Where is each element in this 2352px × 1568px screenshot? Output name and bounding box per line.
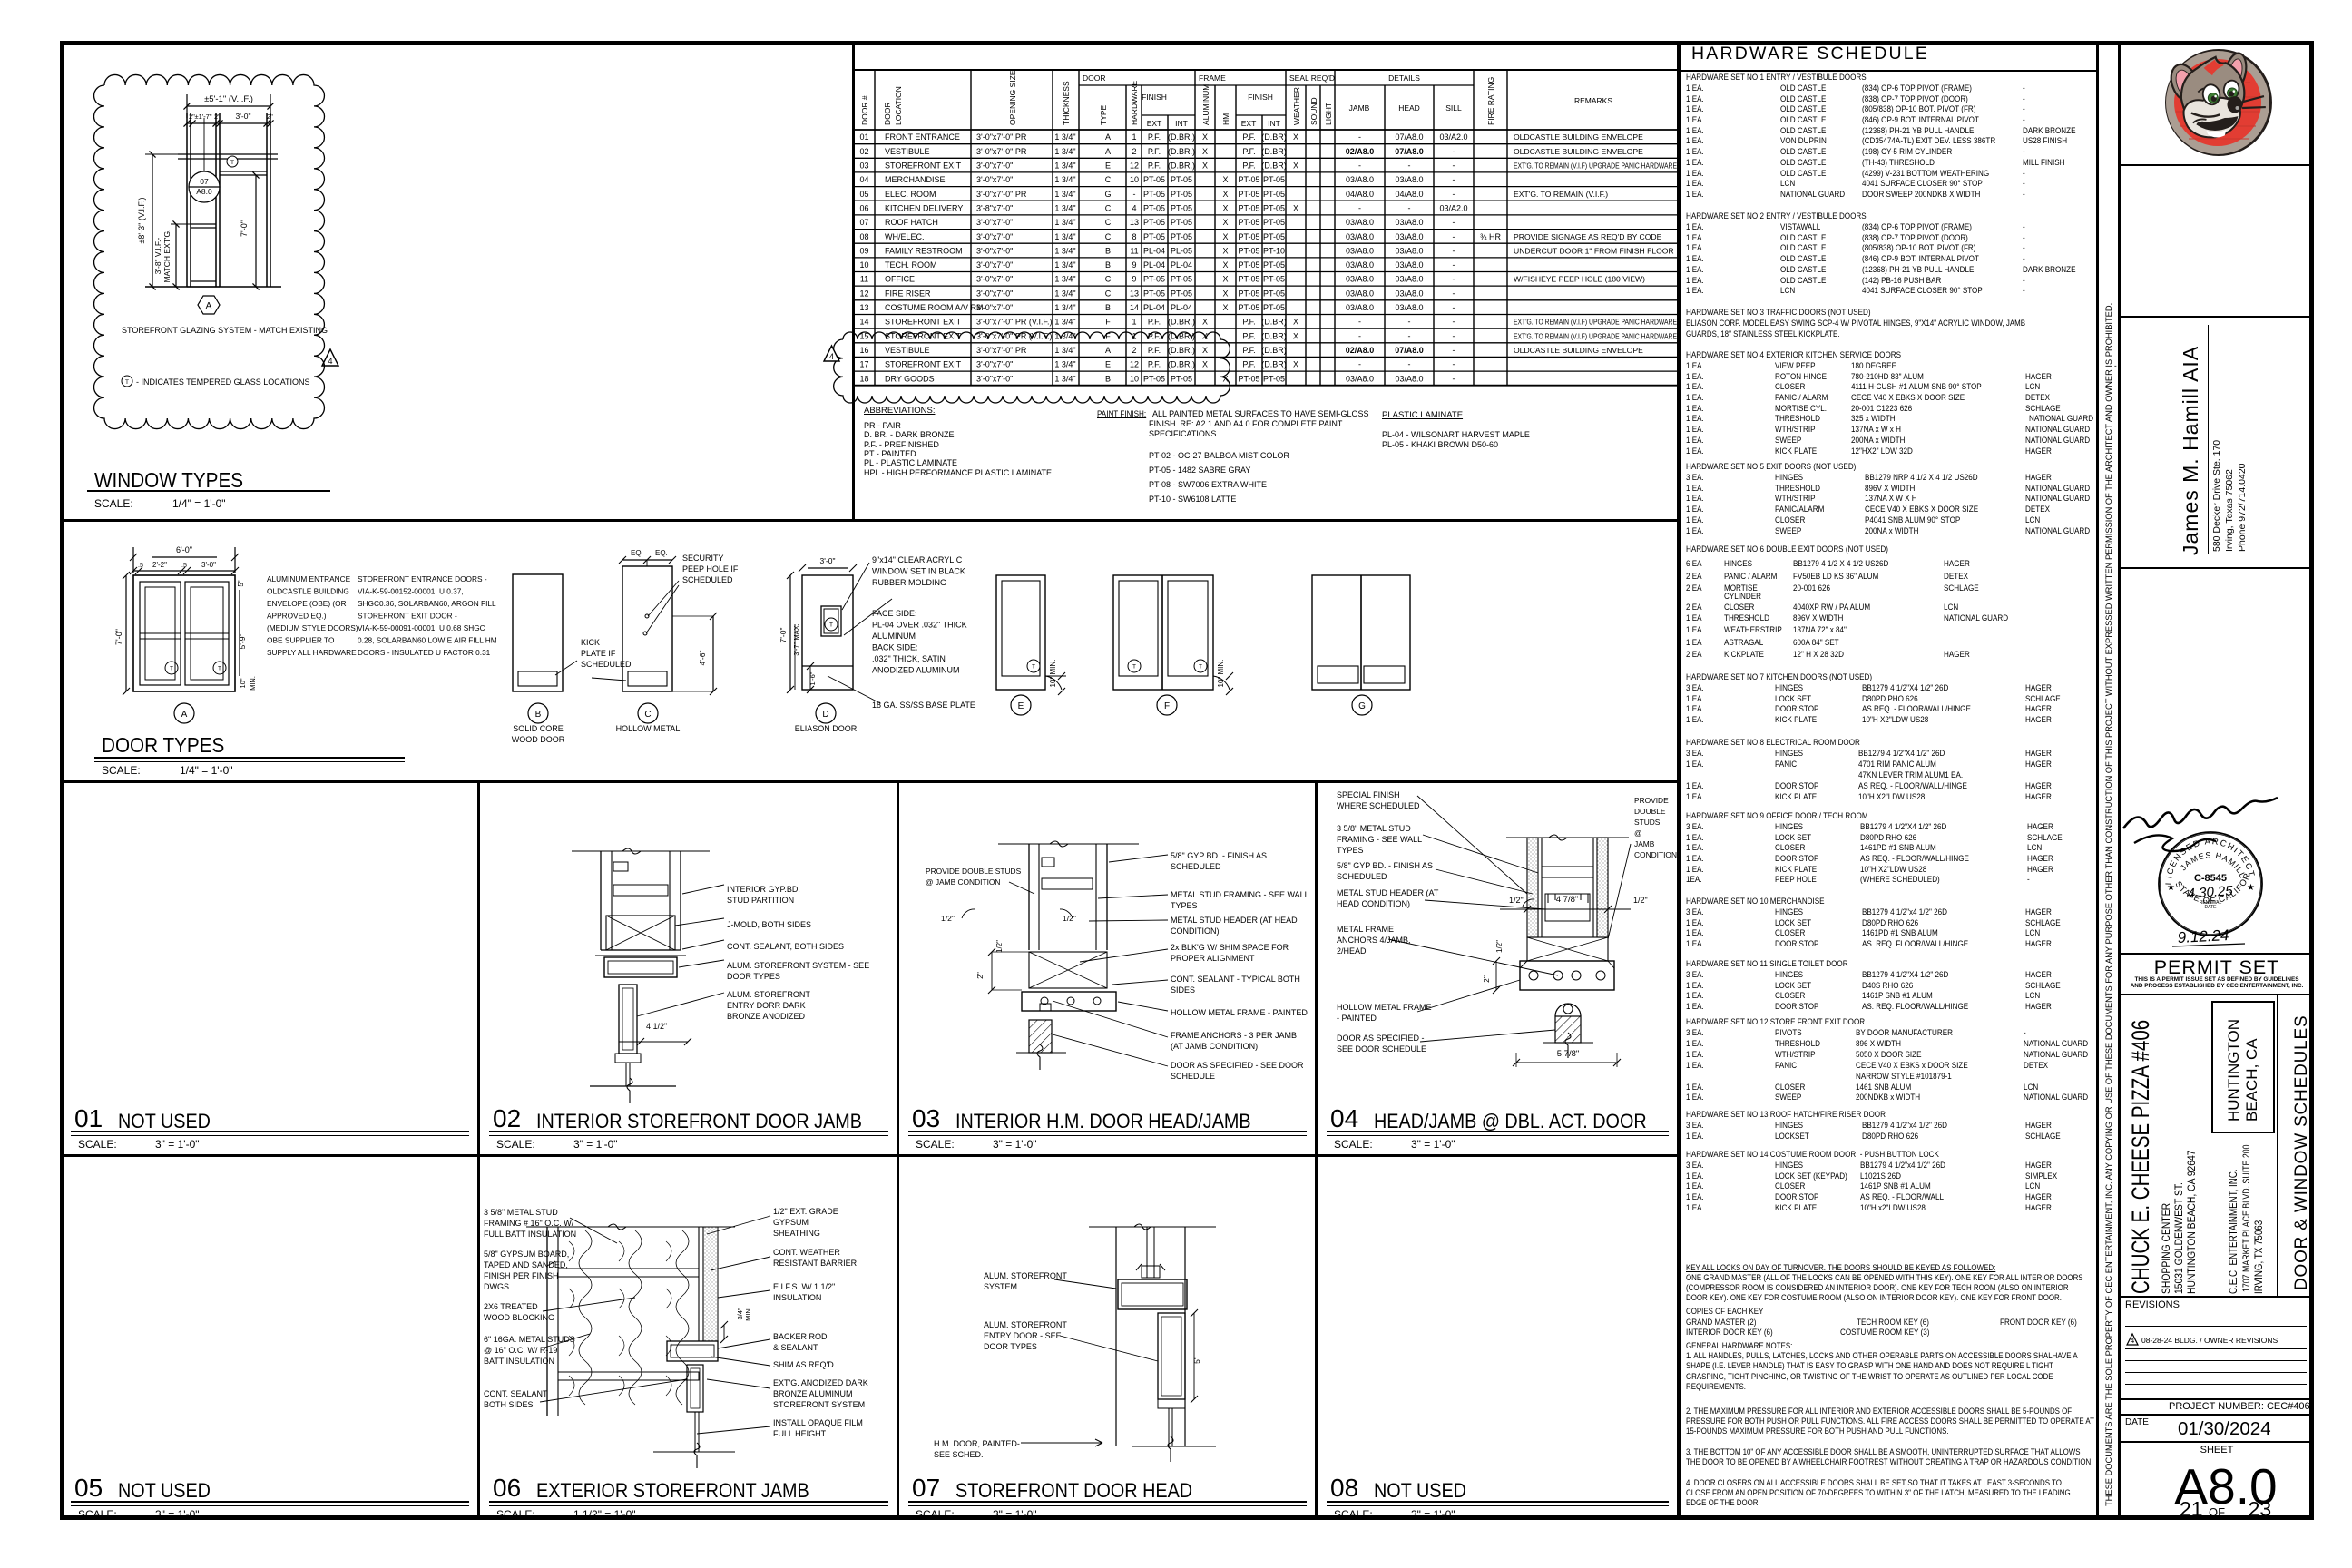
svg-text:STUD PARTITION: STUD PARTITION: [727, 896, 794, 905]
svg-text:3 5/8" METAL STUD: 3 5/8" METAL STUD: [1337, 824, 1411, 833]
stamp: [2151, 810, 2274, 955]
svg-text:@ JAMB CONDITION: @ JAMB CONDITION: [926, 877, 1000, 887]
detail 06 exterior storefront jamb section: [546, 1227, 548, 1416]
svg-text:EXT'G. ANODIZED DARK: EXT'G. ANODIZED DARK: [773, 1378, 868, 1387]
svg-text:FRAME ANCHORS - 3 PER JAMB: FRAME ANCHORS - 3 PER JAMB: [1171, 1031, 1297, 1040]
svg-text:CONDITION): CONDITION): [1171, 926, 1220, 936]
svg-text:BRONZE ANODIZED: BRONZE ANODIZED: [727, 1012, 806, 1021]
door type F pair elevation: [1113, 575, 1213, 690]
svg-text:GYPSUM: GYPSUM: [773, 1218, 808, 1227]
permit set: [2122, 956, 2312, 979]
svg-text:4.30.25: 4.30.25: [2187, 883, 2234, 901]
svg-text:1/2": 1/2": [1633, 896, 1648, 905]
svg-text:SCHEDULED: SCHEDULED: [1171, 862, 1221, 871]
svg-text:CONT. SEALANT: CONT. SEALANT: [484, 1389, 548, 1398]
door type E elevation: [996, 575, 1045, 690]
svg-text:CONT. SEALANT, BOTH SIDES: CONT. SEALANT, BOTH SIDES: [727, 942, 844, 951]
detail 03 interior HM door head/jamb section: [1028, 844, 1030, 950]
svg-text:METAL STUD HEADER (AT HEAD: METAL STUD HEADER (AT HEAD: [1171, 916, 1298, 925]
svg-text:CONDITION: CONDITION: [1634, 850, 1677, 859]
title block cell lines: [2120, 164, 2310, 166]
svg-text:2x BLK'G W/ SHIM SPACE FOR: 2x BLK'G W/ SHIM SPACE FOR: [1171, 943, 1289, 952]
svg-text:HOLLOW METAL FRAME: HOLLOW METAL FRAME: [1337, 1003, 1432, 1012]
svg-text:1/2": 1/2": [1509, 896, 1524, 905]
svg-text:DOUBLE: DOUBLE: [1634, 807, 1666, 816]
svg-text:4: 4: [2131, 1337, 2135, 1345]
svg-text:STUDS: STUDS: [1634, 818, 1661, 827]
svg-text:2": 2": [975, 972, 985, 979]
svg-text:BOTH SIDES: BOTH SIDES: [484, 1400, 534, 1409]
project info rotated: [2128, 1020, 2155, 1294]
door type C hollow metal elevation: [622, 566, 672, 691]
svg-text:TYPES: TYPES: [1337, 846, 1364, 855]
svg-text:SHEATHING: SHEATHING: [773, 1229, 820, 1238]
svg-text:5 7/8": 5 7/8": [1557, 1049, 1580, 1059]
svg-text:J-MOLD, BOTH SIDES: J-MOLD, BOTH SIDES: [727, 920, 811, 929]
svg-text:SEE SCHED.: SEE SCHED.: [934, 1450, 984, 1459]
svg-text:CONT. SEALANT - TYPICAL BOTH: CONT. SEALANT - TYPICAL BOTH: [1171, 975, 1300, 984]
main panel divider lines: [60, 519, 1680, 522]
svg-text:H.M. DOOR, PAINTED-: H.M. DOOR, PAINTED-: [934, 1439, 1020, 1448]
hardware schedule text: [1686, 73, 1886, 82]
svg-text:2/HEAD: 2/HEAD: [1337, 946, 1367, 955]
svg-text:1/2" EXT. GRADE: 1/2" EXT. GRADE: [773, 1207, 838, 1216]
detail panel titles: [74, 1104, 103, 1133]
svg-text:RESISTANT BARRIER: RESISTANT BARRIER: [773, 1259, 857, 1268]
svg-text:PROVIDE DOUBLE STUDS: PROVIDE DOUBLE STUDS: [926, 867, 1022, 876]
vertical disclaimer: [2104, 303, 2113, 1506]
svg-text:BATT INSULATION: BATT INSULATION: [484, 1357, 554, 1366]
door type D eliason door elevation: [802, 575, 853, 690]
plastic laminate block: [1382, 411, 1463, 421]
detail 02 interior storefront door jamb section: [600, 851, 602, 950]
svg-text:@: @: [1634, 828, 1642, 838]
door type G pair elevation: [1312, 575, 1410, 690]
svg-text:CONT. WEATHER: CONT. WEATHER: [773, 1248, 840, 1257]
svg-text:SYSTEM: SYSTEM: [984, 1282, 1017, 1291]
svg-text:- PAINTED: - PAINTED: [1337, 1014, 1377, 1023]
svg-text:2": 2": [1482, 975, 1491, 983]
svg-text:ENTRY DOOR - SEE: ENTRY DOOR - SEE: [984, 1331, 1062, 1340]
door type A storefront pair elevation: [133, 575, 235, 691]
svg-text:ALUM. STOREFRONT: ALUM. STOREFRONT: [984, 1320, 1067, 1329]
svg-text:5": 5": [1192, 1357, 1201, 1364]
svg-text:MIN.: MIN.: [744, 1307, 752, 1321]
WINDOW TYPES title: [94, 468, 260, 492]
abbreviations block: [864, 407, 935, 416]
svg-text:9.12.24: 9.12.24: [2177, 926, 2229, 946]
svg-text:TYPES: TYPES: [1171, 901, 1198, 910]
key notes: [1686, 1263, 2030, 1272]
svg-text:BACKER ROD: BACKER ROD: [773, 1332, 828, 1341]
svg-text:E.I.F.S. W/ 1 1/2": E.I.F.S. W/ 1 1/2": [773, 1282, 835, 1291]
svg-text:INSULATION: INSULATION: [773, 1293, 821, 1302]
svg-text:3/4": 3/4": [736, 1308, 744, 1319]
architect info: [2180, 346, 2202, 555]
svg-text:DOOR AS SPECIFIED -: DOOR AS SPECIFIED -: [1337, 1034, 1425, 1043]
svg-text:WOOD BLOCKING: WOOD BLOCKING: [484, 1313, 554, 1322]
svg-text:BRONZE ALUMINUM: BRONZE ALUMINUM: [773, 1389, 853, 1398]
svg-text:WHERE SCHEDULED: WHERE SCHEDULED: [1337, 801, 1420, 810]
svg-text:SPECIAL FINISH: SPECIAL FINISH: [1337, 790, 1400, 799]
svg-text:METAL FRAME: METAL FRAME: [1337, 925, 1394, 934]
svg-text:DWGS.: DWGS.: [484, 1282, 512, 1291]
svg-text:ALUM. STOREFRONT SYSTEM - SEE: ALUM. STOREFRONT SYSTEM - SEE: [727, 961, 869, 970]
svg-text:3 5/8" METAL STUD: 3 5/8" METAL STUD: [484, 1208, 558, 1217]
svg-text:SHIM AS REQ'D.: SHIM AS REQ'D.: [773, 1360, 836, 1369]
svg-text:FINISH PER FINISH: FINISH PER FINISH: [484, 1271, 559, 1280]
svg-text:INTERIOR GYP.BD.: INTERIOR GYP.BD.: [727, 885, 800, 894]
svg-text:1/2": 1/2": [941, 914, 955, 923]
svg-text:★: ★: [2247, 883, 2255, 893]
project number / date / sheet: [2169, 1401, 2310, 1413]
revisions block: [2125, 1299, 2180, 1311]
svg-text:DOOR TYPES: DOOR TYPES: [727, 972, 780, 981]
svg-text:FRAMING - SEE WALL: FRAMING - SEE WALL: [1337, 835, 1422, 844]
svg-text:ENTRY DORR DARK: ENTRY DORR DARK: [727, 1001, 806, 1010]
svg-text:4 1/2": 4 1/2": [646, 1022, 667, 1031]
svg-text:JAMB: JAMB: [1634, 839, 1655, 848]
svg-text:METAL STUD FRAMING - SEE WALL: METAL STUD FRAMING - SEE WALL: [1171, 890, 1309, 899]
svg-text:1/2": 1/2": [1495, 940, 1504, 953]
detail 04 head/jamb at double acting door section: [1527, 838, 1538, 937]
svg-text:(AT JAMB CONDITION): (AT JAMB CONDITION): [1171, 1042, 1258, 1051]
svg-text:5/8" GYP BD. - FINISH AS: 5/8" GYP BD. - FINISH AS: [1337, 861, 1433, 870]
svg-text:4 7/8": 4 7/8": [1556, 895, 1579, 905]
svg-text:ALUM. STOREFRONT: ALUM. STOREFRONT: [727, 990, 810, 999]
detail 07 storefront door head section: [1115, 1227, 1117, 1446]
svg-text:INSTALL OPAQUE FILM: INSTALL OPAQUE FILM: [773, 1418, 863, 1427]
chuck e cheese logo: [2163, 46, 2276, 162]
svg-text:ALUM. STOREFRONT: ALUM. STOREFRONT: [984, 1271, 1067, 1280]
svg-text:DATE: DATE: [2205, 905, 2218, 910]
svg-text:STOREFRONT SYSTEM: STOREFRONT SYSTEM: [773, 1400, 865, 1409]
svg-text:PROVIDE: PROVIDE: [1634, 796, 1669, 805]
svg-text:C-8545: C-8545: [2194, 873, 2227, 884]
svg-text:1/2": 1/2": [1063, 914, 1076, 923]
svg-text:5/8" GYP BD. - FINISH AS: 5/8" GYP BD. - FINISH AS: [1171, 851, 1267, 860]
svg-text:1/2": 1/2": [995, 940, 1004, 953]
HARDWARE SCHEDULE title: [1691, 44, 1929, 64]
svg-text:08-28-24 BLDG. / OWNER REVISIO: 08-28-24 BLDG. / OWNER REVISIONS: [2141, 1336, 2278, 1345]
svg-text:ANCHORS 4/JAMB,: ANCHORS 4/JAMB,: [1337, 936, 1411, 945]
svg-text:FULL HEIGHT: FULL HEIGHT: [773, 1429, 827, 1438]
svg-text:DOOR AS SPECIFIED - SEE DOOR: DOOR AS SPECIFIED - SEE DOOR: [1171, 1061, 1304, 1070]
svg-text:SCHEDULED: SCHEDULED: [1337, 872, 1387, 881]
svg-text:SIDES: SIDES: [1171, 985, 1195, 995]
svg-text:2X6 TREATED: 2X6 TREATED: [484, 1302, 538, 1311]
svg-text:SCHEDULE: SCHEDULE: [1171, 1072, 1215, 1081]
svg-text:PROPER ALIGNMENT: PROPER ALIGNMENT: [1171, 954, 1255, 963]
svg-text:& SEALANT: & SEALANT: [773, 1343, 818, 1352]
svg-text:FRAMING # 16" O.C. W/: FRAMING # 16" O.C. W/: [484, 1219, 574, 1228]
door type B solid core wood door elevation: [513, 574, 563, 691]
svg-text:★: ★: [2167, 883, 2175, 893]
svg-text:DOOR TYPES: DOOR TYPES: [984, 1342, 1037, 1351]
svg-text:SEE DOOR SCHEDULE: SEE DOOR SCHEDULE: [1337, 1044, 1426, 1053]
svg-text:FULL BATT INSULATION: FULL BATT INSULATION: [484, 1230, 576, 1239]
DOOR TYPES title: [102, 733, 238, 757]
paint finish block: [1097, 409, 1151, 418]
svg-text:5/8" GYPSUM BOARD,: 5/8" GYPSUM BOARD,: [484, 1249, 569, 1259]
svg-text:HOLLOW METAL FRAME - PAINTED: HOLLOW METAL FRAME - PAINTED: [1171, 1008, 1308, 1017]
svg-text:HEAD CONDITION): HEAD CONDITION): [1337, 899, 1410, 908]
svg-text:METAL STUD HEADER (AT: METAL STUD HEADER (AT: [1337, 888, 1439, 897]
